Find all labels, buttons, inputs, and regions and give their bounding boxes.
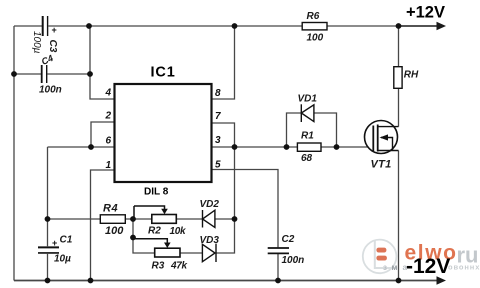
resistor R6 <box>302 23 327 30</box>
capacitor C3 <box>43 16 48 36</box>
wire riser to pin4 <box>90 26 115 99</box>
svg-text:100n: 100n <box>39 85 62 96</box>
resistor R4 <box>100 215 125 224</box>
wire left rail <box>13 26 15 281</box>
svg-text:овоннхх: овоннхх <box>448 263 480 272</box>
svg-text:R6: R6 <box>307 11 320 22</box>
wire C1 branch <box>47 147 49 281</box>
svg-text:47k: 47k <box>170 260 188 271</box>
svg-text:100: 100 <box>105 225 124 237</box>
capacitor C2 <box>268 248 289 253</box>
wire R2 right <box>177 218 203 220</box>
svg-text:3: 3 <box>215 135 221 146</box>
wire R4 row <box>48 218 152 220</box>
svg-text:IC1: IC1 <box>151 65 176 81</box>
wire pin5 to C2 <box>212 170 279 281</box>
wire pin6 row <box>48 146 115 148</box>
diode VD3 <box>202 244 216 262</box>
wire VD2 to riser <box>216 218 235 220</box>
svg-text:-12V: -12V <box>406 255 450 278</box>
svg-text:5: 5 <box>215 160 221 171</box>
svg-text:C3: C3 <box>47 40 58 53</box>
svg-text:2: 2 <box>104 111 111 122</box>
svg-text:R1: R1 <box>301 131 314 142</box>
wire R2-R3 link <box>133 219 155 253</box>
wire pin3 row to gate <box>212 146 374 148</box>
elwo.ru watermark ring <box>363 240 397 274</box>
wire VD1 branch <box>287 113 337 147</box>
svg-text:VD1: VD1 <box>298 94 318 105</box>
svg-text:VD2: VD2 <box>200 199 220 210</box>
wire VT1 source down <box>398 151 400 281</box>
svg-text:C2: C2 <box>282 234 295 245</box>
wire +12V rail down <box>398 26 400 127</box>
svg-text:VT1: VT1 <box>371 158 392 170</box>
elwo logo e-bars <box>376 248 387 261</box>
svg-text:10k: 10k <box>170 226 187 237</box>
svg-text:100: 100 <box>307 33 324 44</box>
svg-text:1: 1 <box>105 160 111 171</box>
arrow +12V <box>437 22 447 30</box>
potentiometer R2 <box>152 215 177 224</box>
resistor R1 <box>297 143 321 151</box>
svg-text:R2: R2 <box>148 226 161 237</box>
svg-text:з: з <box>383 263 387 272</box>
wire pin8 riser <box>212 26 235 99</box>
capacitor C4 <box>42 65 47 83</box>
wire VD3 to riser <box>217 219 235 253</box>
diode VD2 <box>203 210 215 228</box>
resistor RH <box>394 67 402 89</box>
wire top rail <box>14 25 399 27</box>
svg-text:C1: C1 <box>60 235 73 246</box>
svg-text:+: + <box>52 25 57 35</box>
svg-text:RH: RH <box>404 70 419 81</box>
IC1 box <box>115 84 212 182</box>
svg-text:4: 4 <box>104 88 111 99</box>
svg-text:+: + <box>52 238 57 248</box>
arrow -12V <box>437 276 447 284</box>
svg-text:VD3: VD3 <box>200 235 220 246</box>
svg-text:6: 6 <box>105 136 111 147</box>
wire R3 right <box>180 252 202 254</box>
wire pin7 to pin3 <box>212 123 235 147</box>
wire bottom rail <box>14 280 437 282</box>
svg-text:10µ: 10µ <box>54 254 71 265</box>
transistor VT1 <box>365 121 399 154</box>
svg-text:7: 7 <box>215 111 221 122</box>
wire C4 row <box>14 73 90 75</box>
elwo.ru text <box>405 242 479 268</box>
svg-text:+12V: +12V <box>406 4 445 22</box>
potentiometer R3 <box>155 248 180 257</box>
capacitor C1 <box>38 247 59 253</box>
svg-text:8: 8 <box>215 88 221 99</box>
diode VD1 <box>301 104 314 122</box>
svg-text:м: м <box>392 263 398 272</box>
wire +12V arrow line <box>399 25 438 27</box>
wire pin3 riser down <box>234 147 236 219</box>
faint watermark letters <box>383 263 480 273</box>
svg-text:DIL 8: DIL 8 <box>144 187 169 198</box>
svg-text:R3: R3 <box>152 260 165 271</box>
svg-text:R4: R4 <box>103 203 118 215</box>
svg-text:68: 68 <box>301 153 313 164</box>
wire pin2 to pin6 <box>91 122 115 147</box>
wire pin1 riser <box>91 170 115 281</box>
svg-text:100n: 100n <box>282 255 305 266</box>
svg-text:100µ: 100µ <box>31 31 42 54</box>
